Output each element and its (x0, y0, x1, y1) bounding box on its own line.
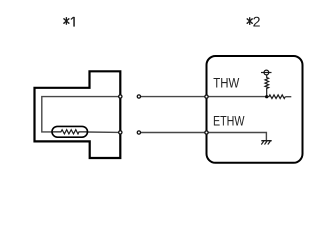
harness connector circle THW (137, 95, 140, 98)
label *1 asterisk (63, 17, 69, 25)
svg-text:2: 2 (253, 14, 261, 30)
ECU pin circle THW (205, 95, 208, 98)
power terminal bar (261, 72, 272, 74)
thermistor bulb (pill) (52, 126, 88, 137)
internal sensor wire from THW terminal to thermistor (42, 97, 121, 132)
thermistor zigzag element (53, 130, 87, 134)
sensor terminal circle THW (119, 95, 122, 98)
svg-text:THW: THW (213, 75, 240, 91)
ground hatch strokes (262, 141, 271, 144)
label *2 asterisk (247, 17, 253, 25)
sensor terminal circle ETHW (119, 131, 122, 134)
sensor connector body outline (35, 71, 121, 158)
power terminal circle (264, 70, 269, 75)
junction dot (265, 95, 268, 98)
label *1 digit (71, 17, 74, 27)
svg-text:ETHW: ETHW (213, 113, 245, 129)
series resistor horizontal zigzag (267, 95, 286, 99)
harness connector circle ETHW (137, 131, 140, 134)
internal sensor wire from thermistor to ETHW terminal (87, 131, 120, 133)
ECU box (207, 56, 303, 163)
series resistor output lead (285, 96, 291, 98)
ECU pin circle ETHW (205, 131, 208, 134)
ETHW harness wire (141, 133, 267, 141)
pull-up resistor vertical zigzag (265, 75, 269, 97)
ground bar (261, 140, 271, 142)
THW harness wire (141, 96, 267, 98)
